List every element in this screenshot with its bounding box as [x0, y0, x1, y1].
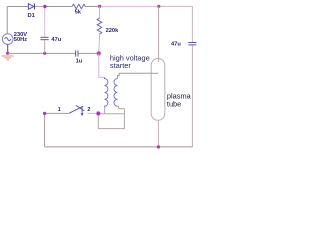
svg-text:1u: 1u [76, 58, 83, 64]
resistor 5k (zigzag) [72, 4, 85, 9]
capacitor C3 47u (right, in right edge) [188, 43, 196, 45]
svg-text:47u: 47u [171, 41, 181, 47]
wire: top rail left segment to diode anode [7, 6, 28, 8]
svg-text:5k: 5k [75, 10, 82, 16]
junction: node B dot [98, 5, 101, 8]
wire: 1u right plate to node C [78, 52, 98, 54]
wire: node B down to 220k [99, 6, 101, 18]
svg-text:tube: tube [167, 100, 181, 109]
svg-text:1: 1 [58, 107, 61, 113]
wire: primary bottom down to loop top edge [104, 107, 106, 114]
wire: switch contact 2 to node G [87, 112, 98, 114]
junction: node H dot [157, 145, 160, 148]
wire: top-left vertical from corner to AC source [6, 7, 8, 34]
switch S1 (open, with actuation arrow) [69, 105, 84, 116]
wire: ground rail y=53.4 to 1u cap [8, 52, 76, 54]
plasma tube (capsule outline) [151, 59, 165, 121]
wire: AC source bottom to ground node (dark magenta) [7, 44, 9, 53]
junction: node E dot [157, 5, 160, 8]
AC source V1 230V 50Hz [2, 34, 13, 45]
wire: 220k bottom to node C [98, 34, 101, 53]
capacitor C2 1u [76, 50, 78, 56]
junction: ground node dot [6, 52, 9, 55]
junction: node A dot [43, 5, 46, 8]
junction: node D dot (47u bottom on ground rail) [43, 52, 46, 55]
wire: 5k to node B [85, 5, 99, 7]
wire: node E to top-right corner [159, 6, 193, 42]
svg-text:47u: 47u [51, 37, 61, 43]
wire: secondary bottom to routing loop right edge [117, 106, 124, 108]
junction: node C dot [96, 51, 101, 56]
wire: bottom-left riser to node F [44, 113, 46, 146]
wire: 47u bottom to node D [44, 40, 46, 53]
wire: node E down to tube top electrode [158, 6, 160, 61]
wire: node A down to 47u top (pink) [44, 7, 46, 37]
inductor L1: transformer primary coil [105, 77, 108, 107]
diode D1 [28, 4, 34, 10]
wire: node A to 5k resistor [45, 6, 72, 8]
wire: routing loop rectangle (secondary return) [98, 109, 124, 129]
svg-text:2: 2 [87, 107, 90, 113]
svg-text:50Hz: 50Hz [14, 37, 27, 43]
wire: node C down to transformer primary (pink) [99, 53, 105, 77]
inductor L2: transformer secondary coil [114, 79, 117, 107]
wire: tube bottom electrode down to bottom rail [157, 120, 159, 147]
wire: secondary top to plasma tube left electrode [117, 73, 151, 78]
resistor 220k (vertical zigzag) [97, 18, 102, 34]
wire: node F to switch contact 1 [45, 112, 70, 114]
wire: bottom rail [45, 146, 193, 148]
capacitor C1 47u (left) [41, 37, 49, 39]
junction: node F dot [43, 112, 46, 115]
wire: right edge below cap down to bottom-right corner [191, 46, 193, 147]
ground [2, 56, 14, 60]
wire: tube left electrode (inside tube) [151, 72, 158, 74]
svg-text:220k: 220k [106, 28, 119, 34]
wire: node B to node E (pink) [100, 5, 159, 7]
junction: node G dot [96, 111, 101, 116]
svg-text:D1: D1 [28, 13, 35, 19]
wire: diode cathode to node A [35, 6, 45, 8]
svg-text:starter: starter [110, 61, 131, 70]
